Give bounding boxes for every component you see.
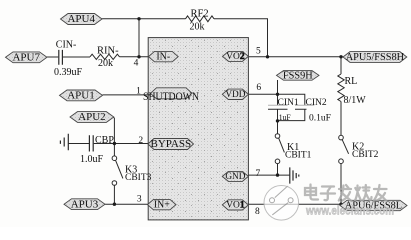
svg-text:VO2: VO2 xyxy=(226,52,245,62)
svg-text:CIN2: CIN2 xyxy=(306,98,327,108)
svg-text:VO1: VO1 xyxy=(226,201,245,211)
svg-text:20k: 20k xyxy=(190,22,205,33)
svg-text:0.39uF: 0.39uF xyxy=(54,67,83,78)
svg-text:www.elecfans.com: www.elecfans.com xyxy=(305,205,394,217)
svg-text:APU2: APU2 xyxy=(78,111,106,123)
svg-text:CBIT1: CBIT1 xyxy=(285,151,312,161)
svg-text:1uF: 1uF xyxy=(279,112,291,122)
svg-text:4: 4 xyxy=(134,59,139,69)
svg-text:CIN1: CIN1 xyxy=(278,98,299,108)
svg-text:1.0uF: 1.0uF xyxy=(80,154,104,165)
svg-text:FSS9H: FSS9H xyxy=(283,70,313,81)
svg-text:IN-: IN- xyxy=(156,51,170,62)
svg-text:IN+: IN+ xyxy=(154,199,171,210)
svg-text:VDD: VDD xyxy=(225,90,245,100)
svg-text:2: 2 xyxy=(138,136,143,146)
svg-text:SHUTDOWN: SHUTDOWN xyxy=(143,91,200,103)
svg-text:APU5/FSS8H: APU5/FSS8H xyxy=(346,52,405,63)
svg-text:0.1uF: 0.1uF xyxy=(309,113,331,123)
svg-text:8/1W: 8/1W xyxy=(344,95,367,106)
svg-text:GND: GND xyxy=(225,172,245,182)
svg-text:CBP: CBP xyxy=(95,135,114,146)
svg-text:APU7: APU7 xyxy=(12,52,40,64)
svg-text:RF2: RF2 xyxy=(191,8,209,19)
svg-text:APU3: APU3 xyxy=(71,198,99,210)
svg-text:RL: RL xyxy=(345,76,358,87)
svg-text:6: 6 xyxy=(256,83,261,93)
svg-text:BYPASS: BYPASS xyxy=(151,138,192,150)
svg-text:CBIT3: CBIT3 xyxy=(125,173,152,183)
svg-text:CIN-: CIN- xyxy=(56,40,77,51)
svg-text:APU1: APU1 xyxy=(67,90,95,102)
svg-text:3: 3 xyxy=(137,194,142,204)
svg-text:5: 5 xyxy=(256,47,261,57)
svg-text:CBIT2: CBIT2 xyxy=(352,150,379,160)
svg-text:20k: 20k xyxy=(98,58,113,69)
svg-text:8: 8 xyxy=(255,207,260,217)
svg-text:7: 7 xyxy=(256,169,261,179)
svg-text:APU4: APU4 xyxy=(67,13,95,25)
svg-text:RIN-: RIN- xyxy=(97,46,119,57)
svg-text:1: 1 xyxy=(136,87,141,97)
